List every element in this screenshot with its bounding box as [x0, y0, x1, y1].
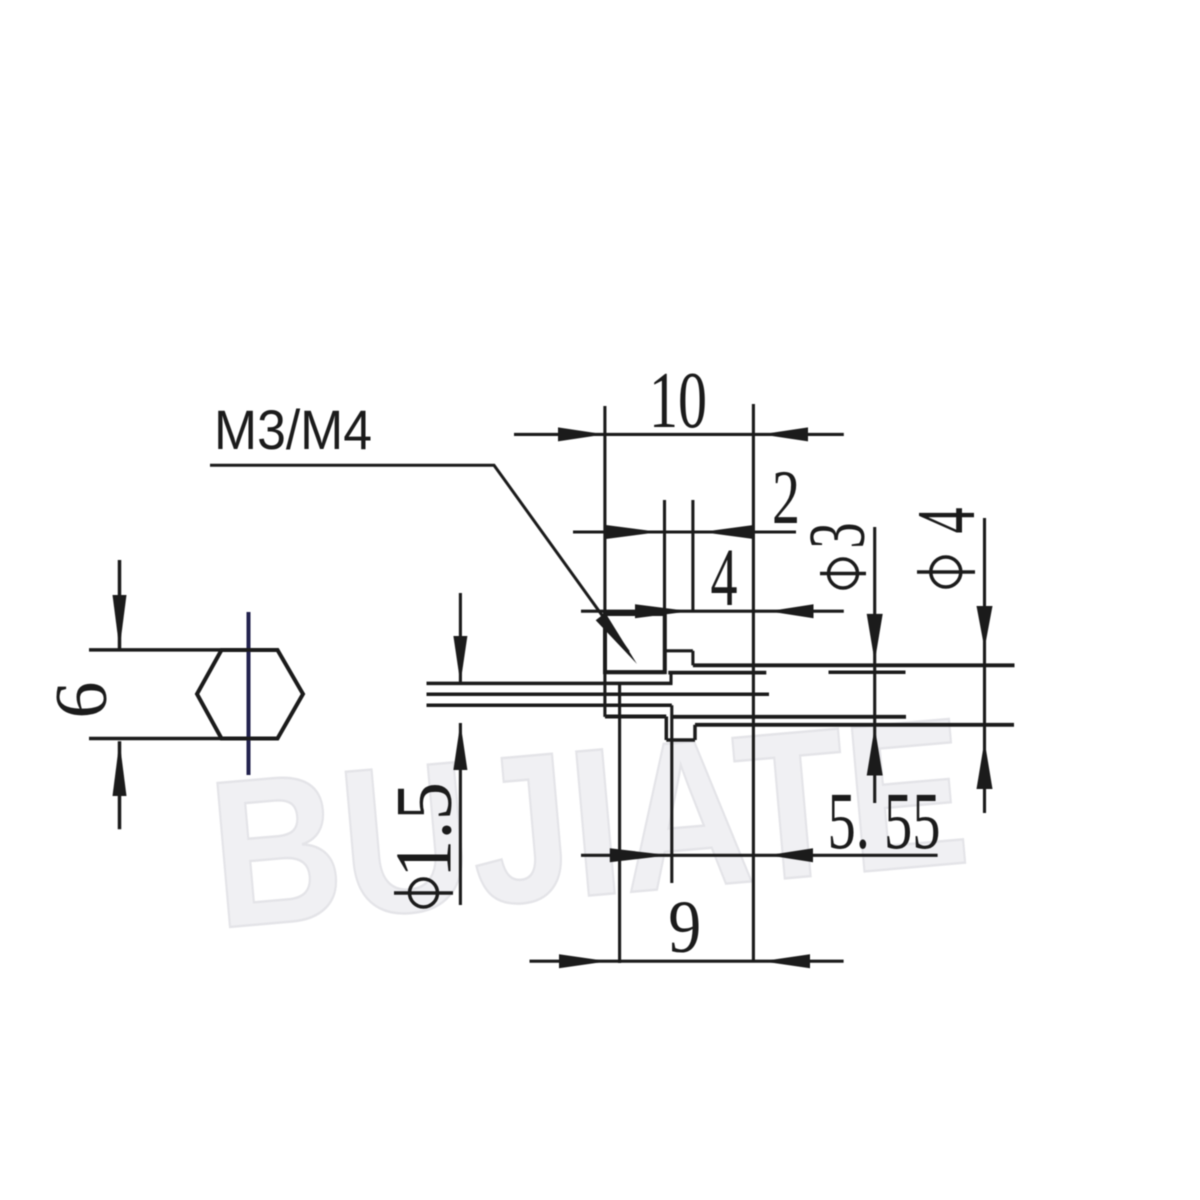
dimension 4 arrow left	[769, 604, 814, 618]
dimension phi4 arrow up	[977, 741, 993, 789]
svg-text:3: 3	[793, 523, 881, 549]
dimension phi3 arrow down	[867, 614, 883, 662]
dimension phi3 label	[793, 523, 881, 589]
dimension 5.55 arrow right	[610, 848, 670, 862]
hex centerline (dark blue vertical)	[247, 612, 251, 775]
bore step vertical top	[669, 673, 672, 684]
dimension 2 arrow right	[606, 525, 660, 539]
dimension 9 line	[530, 960, 844, 963]
outer diameter top line (right)	[668, 671, 766, 675]
outer diameter top line (left)	[605, 670, 665, 674]
watermark BUJIATE	[201, 673, 976, 973]
dimension phi4 arrow down	[977, 606, 993, 649]
dimension 9 arrow left	[762, 954, 810, 968]
svg-text:6: 6	[41, 682, 123, 719]
dimension phi4 line	[983, 518, 986, 813]
dimension 6 line lower segment	[118, 741, 122, 829]
dimension 10 arrow left	[761, 427, 808, 441]
extension line x605	[603, 406, 606, 717]
leader line	[210, 465, 629, 652]
bottom step horizontal	[666, 738, 695, 742]
tick line x693	[691, 500, 694, 612]
flange box (section)	[605, 614, 665, 672]
dimension 10 line	[514, 433, 844, 436]
dimension 5.55 line	[581, 854, 938, 857]
dimension phi1.5 label	[380, 782, 468, 907]
centerline	[427, 693, 770, 697]
dimension 6 arrow up	[113, 741, 127, 796]
extension line hex bottom	[89, 737, 278, 741]
tick line x664	[663, 500, 666, 672]
extension line hex top	[89, 648, 278, 652]
outer diameter bottom line (left)	[605, 715, 666, 719]
bore top line	[427, 682, 673, 686]
dimension 10 arrow right	[558, 427, 605, 441]
extension line x620 (dim 9)	[618, 683, 621, 963]
shaft bottom edge	[695, 723, 1014, 727]
extension line x753	[752, 404, 755, 962]
step top horizontal	[665, 649, 693, 652]
dimension 5.55 arrow left	[768, 848, 813, 862]
dimension phi3 line	[873, 527, 876, 803]
hexagon (end view)	[197, 650, 303, 739]
bottom step vertical right	[693, 725, 697, 740]
dimension 4 line	[581, 610, 844, 613]
dimension phi1.5 arrow up	[453, 723, 467, 770]
svg-text:4: 4	[711, 531, 738, 623]
dimension 9 arrow right	[559, 954, 608, 968]
phi3 extension segment top	[829, 670, 906, 674]
dimension phi1.5 line lower	[459, 723, 462, 905]
outer diameter bottom line (right)	[673, 715, 907, 719]
dimension phi1.5 line upper	[459, 593, 462, 683]
svg-text:M3/M4: M3/M4	[214, 398, 372, 461]
svg-text:5. 55: 5. 55	[828, 775, 941, 866]
svg-text:1.5: 1.5	[380, 782, 468, 878]
dimension phi4 label	[900, 508, 993, 588]
bottom step vertical left	[665, 717, 669, 741]
extension line x672 (dim 5.55)	[670, 705, 673, 883]
dimension 2 arrow left	[702, 525, 754, 539]
bore bottom line	[427, 704, 672, 708]
svg-text:9: 9	[668, 886, 701, 969]
dimension phi3 arrow up	[867, 727, 883, 776]
leader arrowhead	[596, 613, 637, 664]
dimension 4 arrow right	[635, 604, 690, 618]
shaft top edge	[693, 663, 1015, 667]
dimension 6 arrow down	[113, 595, 127, 649]
svg-text:4: 4	[900, 508, 993, 534]
step top vertical	[691, 651, 694, 666]
dimension 2 line	[573, 530, 796, 533]
svg-text:10: 10	[649, 355, 707, 445]
dimension 6 line upper segment	[118, 560, 122, 649]
dimension phi1.5 arrow down	[453, 636, 467, 683]
